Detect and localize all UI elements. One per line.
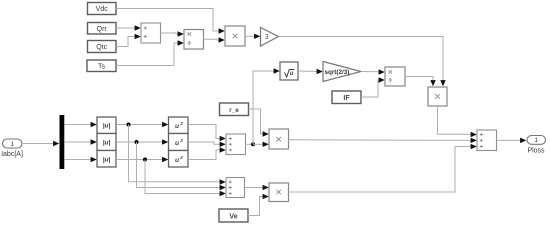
- adder block Add2: [226, 178, 245, 198]
- junction J3: [143, 158, 147, 162]
- abs block Abs1: [97, 117, 116, 134]
- svg-text:u: u: [290, 71, 294, 77]
- svg-text:r_e: r_e: [229, 107, 239, 114]
- svg-text:2: 2: [179, 138, 183, 143]
- svg-text:|u|: |u|: [103, 123, 111, 130]
- constant block IF: [332, 91, 361, 104]
- product block Product2: [428, 87, 447, 106]
- wire Add1 to Divide1: [161, 31, 184, 36]
- square block Square1: [169, 117, 189, 134]
- adder block Add3: [477, 130, 497, 151]
- output port Ploss: [527, 136, 546, 155]
- wire Demux to Abs1: [64, 122, 97, 127]
- adder block Sum1: [226, 134, 246, 155]
- svg-text:Qrr: Qrr: [97, 26, 108, 33]
- wire Square2 to Sum1: [188, 142, 226, 147]
- wire Ts to Divide1: [116, 40, 184, 65]
- square block Square3: [169, 151, 189, 168]
- svg-text:Qtc: Qtc: [96, 44, 107, 51]
- svg-text:Iabc[A]: Iabc[A]: [1, 151, 23, 158]
- wire Iabc to Demux: [22, 141, 59, 146]
- junction J2: [135, 140, 139, 144]
- wire Square3 to Sum1: [188, 147, 226, 159]
- wire J2 to Add2: [137, 142, 226, 190]
- svg-text:3: 3: [265, 34, 269, 41]
- constant block Ve: [219, 209, 248, 222]
- wire Abs1 to Square1: [116, 122, 168, 127]
- wire Divide1 to Product1: [204, 37, 225, 42]
- constant block Ts: [87, 60, 116, 72]
- svg-text:2: 2: [179, 155, 183, 160]
- divide block Divide1: [184, 30, 204, 50]
- svg-text:|u|: |u|: [103, 157, 111, 164]
- wire J4 to Sqrt1: [253, 68, 280, 144]
- wire Product2 to Add3: [438, 106, 477, 137]
- abs block Abs3: [97, 151, 116, 168]
- wire Square1 to Sum1: [188, 125, 226, 142]
- input port Iabc[A]: [1, 139, 23, 158]
- product block Product1: [225, 26, 245, 46]
- svg-text:u: u: [175, 123, 179, 130]
- product block Product4: [269, 183, 289, 202]
- svg-text:Ts: Ts: [98, 64, 106, 71]
- svg-text:Ploss: Ploss: [527, 148, 545, 155]
- divide block Divide2: [385, 67, 405, 86]
- wire Qtc to Add1: [116, 34, 141, 47]
- demux block Demux1: [60, 115, 65, 169]
- wire Add2 to Product4: [245, 185, 269, 190]
- wire J3 to Add2: [145, 160, 226, 197]
- svg-text:1: 1: [10, 141, 14, 148]
- svg-text:u: u: [175, 140, 179, 147]
- svg-text:Ve: Ve: [229, 213, 237, 220]
- junction J1: [127, 123, 131, 127]
- wire Product1 to Gain3: [245, 34, 260, 39]
- constant block Qrr: [88, 23, 117, 35]
- svg-text:u: u: [175, 157, 179, 164]
- wire Add3 to Ploss: [497, 138, 527, 143]
- wire Demux to Abs2: [64, 139, 97, 144]
- wire Gain3 to Product2: [279, 37, 446, 87]
- wire Gain2 to Divide2: [361, 69, 385, 74]
- wire Ve to Product4: [248, 194, 269, 216]
- wire J1 to Add2: [129, 125, 226, 185]
- constant block Vdc: [88, 3, 117, 15]
- wire Divide2 to Product2: [405, 77, 436, 87]
- svg-text:|u|: |u|: [103, 140, 111, 147]
- gain block Gain3: [261, 28, 279, 47]
- svg-text:Vdc: Vdc: [96, 6, 109, 13]
- svg-text:2: 2: [179, 121, 183, 126]
- wire IF to Divide2: [361, 77, 385, 97]
- wire Sum1 to J4: [246, 143, 254, 145]
- product block Product3: [269, 129, 289, 149]
- svg-text:1: 1: [534, 137, 538, 144]
- wire Product4 to Add3: [289, 144, 477, 192]
- wire Abs2 to Square2: [116, 139, 168, 144]
- sqrt block Sqrt1: [280, 62, 298, 80]
- constant block Qtc: [88, 41, 117, 53]
- square block Square2: [169, 134, 189, 151]
- wire Sqrt1 to Gain2: [298, 69, 323, 74]
- wire Demux to Abs3: [64, 157, 97, 162]
- adder block Add1: [141, 23, 161, 43]
- wire Vdc to Product1: [116, 9, 225, 34]
- wire r_e to Product3: [249, 109, 269, 137]
- wire Product3 to Add3: [289, 138, 477, 143]
- svg-text:sqrt(2/3): sqrt(2/3): [325, 69, 350, 76]
- wire J4 to Product3: [253, 142, 269, 147]
- wire Abs3 to Square3: [116, 157, 168, 162]
- wire Qrr to Add1: [116, 25, 141, 30]
- constant block r_e: [220, 103, 249, 116]
- abs block Abs2: [97, 134, 116, 151]
- svg-text:IF: IF: [343, 95, 350, 102]
- junction J4: [251, 142, 255, 146]
- gain block Gain2 sqrt(2/3): [323, 62, 361, 82]
